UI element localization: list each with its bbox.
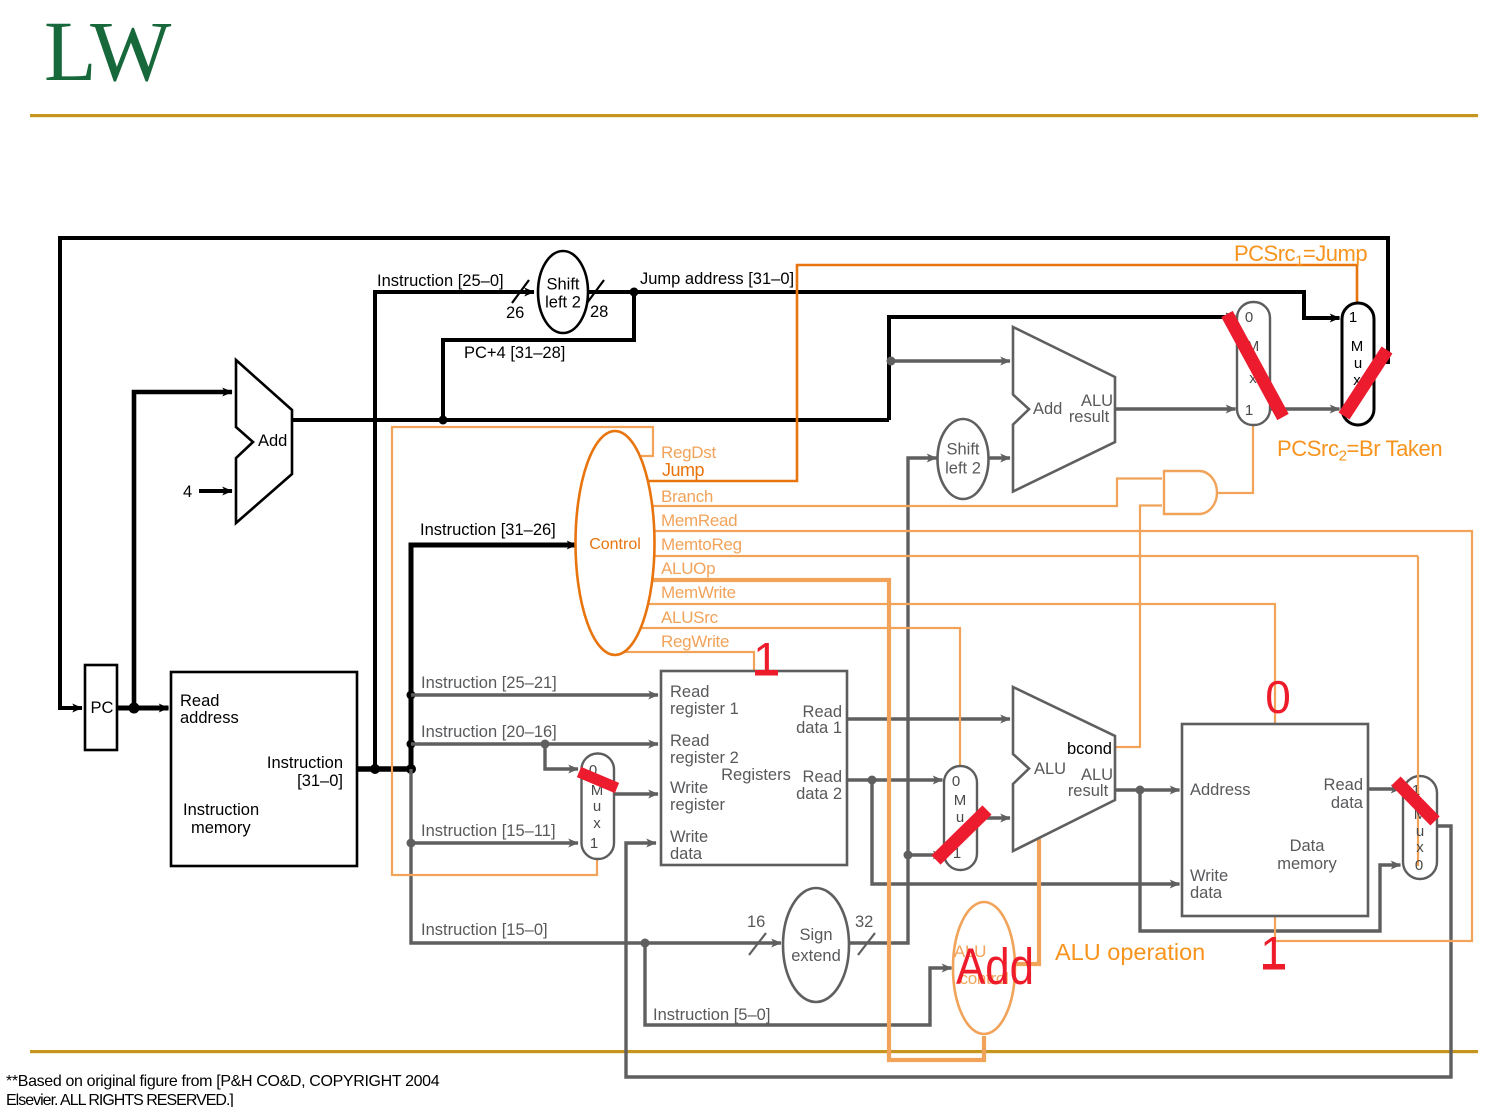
- svg-text:MemWrite: MemWrite: [661, 583, 736, 602]
- svg-text:16: 16: [747, 913, 765, 931]
- svg-text:Jump address [31–0]: Jump address [31–0]: [640, 270, 794, 288]
- svg-text:Instruction [5–0]: Instruction [5–0]: [653, 1006, 770, 1024]
- svg-text:Read: Read: [180, 692, 219, 710]
- svg-text:data 1: data 1: [796, 719, 842, 737]
- svg-text:4: 4: [183, 483, 192, 501]
- svg-text:ALU operation: ALU operation: [1055, 939, 1205, 965]
- svg-text:bcond: bcond: [1067, 740, 1112, 758]
- svg-text:ALUSrc: ALUSrc: [661, 608, 719, 627]
- svg-text:M: M: [954, 792, 967, 809]
- svg-text:MemRead: MemRead: [661, 511, 737, 530]
- svg-text:Control: Control: [589, 536, 641, 553]
- svg-text:Sign: Sign: [799, 926, 832, 944]
- svg-text:Read: Read: [803, 768, 842, 786]
- svg-text:data: data: [670, 845, 703, 863]
- svg-text:data 2: data 2: [796, 785, 842, 803]
- svg-text:**Based on original figure fro: **Based on original figure from [P&H CO&…: [6, 1073, 440, 1090]
- svg-text:u: u: [593, 798, 601, 815]
- svg-text:32: 32: [855, 913, 873, 931]
- svg-text:Elsevier. ALL RIGHTS RESERVED.: Elsevier. ALL RIGHTS RESERVED.]: [6, 1092, 233, 1107]
- svg-text:Shift: Shift: [546, 276, 579, 294]
- svg-text:memory: memory: [191, 819, 251, 837]
- svg-text:ALUOp: ALUOp: [661, 559, 715, 578]
- svg-text:data: data: [1190, 884, 1223, 902]
- svg-text:register 2: register 2: [670, 749, 739, 767]
- svg-text:left 2: left 2: [945, 460, 981, 478]
- svg-text:Write: Write: [670, 779, 708, 797]
- svg-text:result: result: [1069, 408, 1110, 426]
- svg-text:Instruction [20–16]: Instruction [20–16]: [421, 723, 557, 741]
- svg-text:u: u: [1416, 823, 1424, 840]
- svg-text:result: result: [1068, 782, 1109, 800]
- svg-text:Instruction [31–26]: Instruction [31–26]: [420, 521, 556, 539]
- svg-text:Address: Address: [1190, 781, 1251, 799]
- svg-text:Jump: Jump: [662, 460, 705, 480]
- svg-text:Read: Read: [670, 732, 709, 750]
- svg-text:PCSrc2=Br Taken: PCSrc2=Br Taken: [1277, 436, 1442, 465]
- svg-text:register 1: register 1: [670, 700, 739, 718]
- svg-text:Write: Write: [1190, 867, 1228, 885]
- svg-text:0: 0: [1245, 309, 1253, 326]
- svg-text:1: 1: [1260, 927, 1286, 979]
- svg-text:26: 26: [506, 304, 524, 322]
- svg-text:[31–0]: [31–0]: [297, 772, 343, 790]
- svg-text:address: address: [180, 709, 239, 727]
- svg-text:Registers: Registers: [721, 766, 791, 784]
- svg-text:x: x: [1416, 839, 1424, 856]
- svg-text:1: 1: [590, 835, 598, 852]
- svg-text:x: x: [593, 815, 601, 832]
- svg-text:Add: Add: [258, 432, 287, 450]
- svg-text:PC: PC: [91, 699, 114, 717]
- svg-text:Data: Data: [1290, 837, 1326, 855]
- svg-text:0: 0: [1265, 671, 1291, 723]
- svg-text:PC+4 [31–28]: PC+4 [31–28]: [464, 344, 565, 362]
- svg-text:extend: extend: [791, 947, 841, 965]
- svg-text:RegWrite: RegWrite: [661, 632, 729, 651]
- svg-text:PCSrc1=Jump: PCSrc1=Jump: [1234, 241, 1367, 270]
- svg-text:0: 0: [1415, 857, 1423, 874]
- svg-text:ALU: ALU: [1034, 760, 1066, 778]
- svg-text:Add: Add: [1033, 400, 1062, 418]
- svg-text:Add: Add: [956, 938, 1034, 995]
- svg-text:data: data: [1331, 794, 1364, 812]
- svg-text:Instruction [25–21]: Instruction [25–21]: [421, 674, 557, 692]
- svg-text:Instruction [25–0]: Instruction [25–0]: [377, 272, 504, 290]
- svg-text:0: 0: [952, 773, 960, 790]
- svg-text:u: u: [956, 809, 964, 826]
- svg-text:Write: Write: [670, 828, 708, 846]
- svg-text:u: u: [1354, 355, 1362, 372]
- svg-text:register: register: [670, 796, 726, 814]
- svg-text:28: 28: [590, 303, 608, 321]
- svg-text:Instruction [15–11]: Instruction [15–11]: [421, 822, 556, 840]
- svg-text:Read: Read: [1324, 776, 1363, 794]
- svg-text:Shift: Shift: [946, 441, 979, 459]
- svg-text:left 2: left 2: [545, 294, 581, 312]
- svg-text:1: 1: [1349, 309, 1357, 326]
- svg-text:Instruction: Instruction: [183, 801, 259, 819]
- svg-text:M: M: [1351, 338, 1364, 355]
- svg-text:Read: Read: [670, 683, 709, 701]
- svg-text:1: 1: [1245, 402, 1253, 419]
- svg-text:Instruction [15–0]: Instruction [15–0]: [421, 921, 548, 939]
- svg-text:Branch: Branch: [661, 487, 713, 506]
- svg-text:LW: LW: [44, 3, 171, 99]
- svg-text:1: 1: [753, 633, 779, 685]
- svg-text:Instruction: Instruction: [267, 754, 343, 772]
- svg-text:MemtoReg: MemtoReg: [661, 535, 742, 554]
- svg-text:memory: memory: [1277, 855, 1337, 873]
